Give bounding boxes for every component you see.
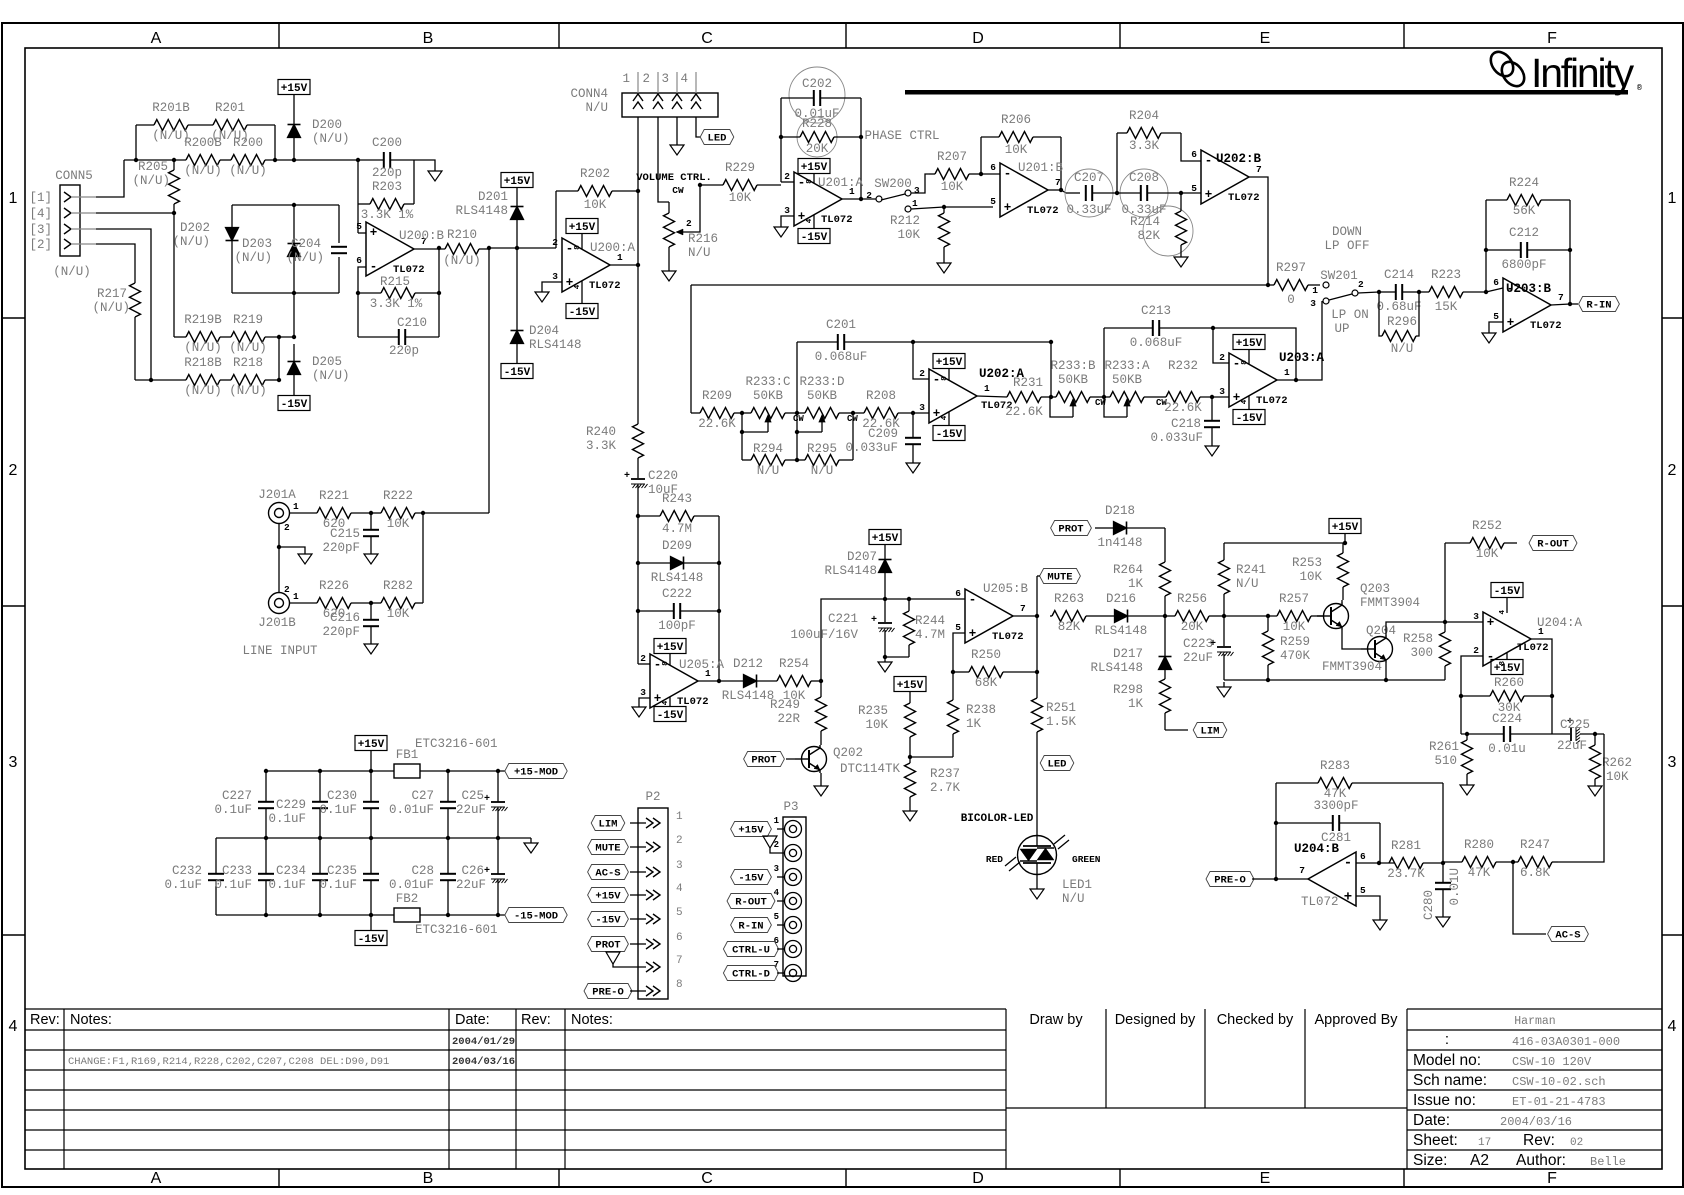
svg-text:+15V: +15V [1332, 522, 1359, 534]
svg-text:2: 2 [284, 584, 290, 595]
svg-text:0.1uF: 0.1uF [319, 878, 357, 892]
capacitor C216 220pF [322, 603, 379, 639]
svg-text:Notes:: Notes: [571, 1012, 613, 1028]
potentiometer R233:D 50KB [795, 375, 859, 434]
wire CONN5 pin3 riser [96, 229, 153, 382]
svg-text:C202: C202 [802, 77, 832, 91]
svg-text:R251: R251 [1046, 701, 1076, 715]
svg-text:8: 8 [662, 661, 670, 666]
svg-text:82K: 82K [1058, 620, 1081, 634]
svg-text:U201:A: U201:A [818, 176, 864, 190]
svg-text:4: 4 [774, 888, 780, 898]
capacitor C202 0.01uF ECO circle [781, 67, 861, 123]
svg-text:D212: D212 [733, 657, 763, 671]
svg-text:C215: C215 [330, 527, 360, 541]
connector CONN5 [29, 169, 96, 279]
svg-text:4: 4 [941, 415, 949, 420]
ground (C221) [878, 657, 892, 672]
svg-text:2: 2 [642, 72, 650, 86]
svg-text:3.3K: 3.3K [586, 439, 617, 453]
svg-text:+: + [370, 226, 378, 240]
svg-text:1: 1 [984, 383, 990, 394]
wire C201 to pin2 [913, 342, 929, 379]
svg-text:CW: CW [793, 414, 804, 424]
svg-text:8: 8 [676, 979, 683, 991]
svg-text:+15V: +15V [595, 891, 621, 903]
svg-text:CHANGE:F1,R169,R214,R228,C202,: CHANGE:F1,R169,R214,R228,C202,C207,C208 … [68, 1056, 389, 1068]
connector P3 pin 2 gnd [763, 836, 802, 862]
svg-text:+: + [871, 615, 877, 626]
connector P2 pin 4 +15V [588, 883, 683, 903]
svg-text:R233:B: R233:B [1050, 359, 1096, 373]
Infinity logo [1486, 48, 1642, 96]
svg-text:-15V: -15V [801, 232, 828, 244]
wire pin2 feedback [555, 191, 557, 248]
svg-text:2.7K: 2.7K [930, 781, 961, 795]
svg-text:-15V: -15V [1494, 586, 1521, 598]
capacitor C215 220pF [322, 513, 379, 555]
svg-text:3: 3 [676, 860, 683, 872]
op-amp U202:B [1191, 149, 1262, 204]
svg-text:R-IN: R-IN [1586, 300, 1611, 312]
resistor R214 82K ECO circle [1130, 193, 1193, 256]
svg-text:R252: R252 [1472, 519, 1502, 533]
svg-text:TL072: TL072 [821, 214, 853, 226]
svg-text:3: 3 [1668, 754, 1677, 771]
svg-text:3: 3 [1219, 386, 1225, 397]
svg-text:0.068uF: 0.068uF [815, 350, 868, 364]
power flag +15V (D200) [278, 80, 310, 125]
svg-text:F: F [1547, 30, 1557, 47]
wire pin2 [638, 663, 650, 665]
svg-text:N/U: N/U [585, 101, 608, 115]
svg-text:2: 2 [9, 462, 18, 479]
svg-text:3: 3 [914, 185, 920, 196]
svg-text:(N/U): (N/U) [229, 164, 267, 178]
svg-text:0.1uF: 0.1uF [164, 878, 202, 892]
svg-text:C: C [701, 30, 713, 47]
svg-text:10K: 10K [1283, 620, 1306, 634]
label BICOLOR-LED [961, 813, 1034, 825]
revision notes table [25, 1009, 1006, 1169]
svg-text:DOWN: DOWN [1332, 225, 1362, 239]
svg-text:ET-01-21-4783: ET-01-21-4783 [1512, 1095, 1606, 1109]
svg-text:CTRL-U: CTRL-U [732, 945, 770, 957]
svg-text:E: E [1260, 30, 1271, 47]
power flag +15V (FB1) [355, 736, 387, 772]
svg-text:R200: R200 [233, 136, 263, 150]
connector CONN4 [570, 72, 718, 117]
svg-text:Date:: Date: [1413, 1112, 1450, 1129]
wire R283/C280 riser [1442, 783, 1444, 863]
wire C213 to U203:A pin2 [1213, 328, 1229, 363]
wire to R204 [1116, 133, 1118, 193]
svg-text:C230: C230 [327, 789, 357, 803]
wire MUTE vertical [1036, 576, 1038, 698]
svg-text:8: 8 [941, 376, 949, 381]
svg-text:10K: 10K [387, 607, 410, 621]
resistor R241 N/U [1219, 543, 1267, 616]
ground (R237) [903, 806, 917, 821]
capacitor C232 0.1uF [164, 838, 224, 915]
wire J201A shield [277, 524, 305, 592]
capacitor C235 0.1uF [319, 838, 379, 915]
resistor R247 6.8K [1513, 838, 1558, 880]
svg-text:U201:B: U201:B [1018, 161, 1064, 175]
svg-text:(N/U): (N/U) [229, 384, 267, 398]
svg-text:0.1uF: 0.1uF [214, 803, 252, 817]
capacitor C223 22uF [1183, 616, 1234, 680]
wire CONN5 pin1 to R200B row [96, 160, 124, 197]
ground (C200) [428, 166, 442, 181]
wire AC-S drop [1513, 862, 1546, 934]
resistor R244 4.7M [883, 599, 945, 659]
svg-text:U205:A: U205:A [679, 658, 725, 672]
resistor R219B (N/U) [174, 313, 222, 355]
svg-text:TL072: TL072 [1301, 895, 1339, 909]
svg-text:23.7K: 23.7K [1387, 867, 1425, 881]
svg-text:5: 5 [774, 912, 779, 922]
svg-text:2: 2 [686, 218, 692, 229]
svg-text:Approved By: Approved By [1314, 1012, 1398, 1028]
svg-text:3: 3 [784, 205, 790, 216]
svg-text:PHASE CTRL: PHASE CTRL [864, 129, 939, 143]
resistor R237 2.7K [905, 757, 961, 806]
svg-text:R223: R223 [1431, 268, 1461, 282]
capacitor C224 0.01u [1461, 712, 1552, 756]
wire R282 up to row [422, 513, 424, 603]
wire C201 right to R231 node [1049, 342, 1053, 399]
potentiometer R216 N/U [664, 185, 719, 260]
svg-text:5: 5 [1493, 311, 1499, 322]
net flag PROT (Q202) [744, 752, 795, 767]
wire U201:A feedback loop [779, 98, 863, 201]
resistor R262 10K [1590, 732, 1633, 784]
wire +15 rail [264, 769, 505, 773]
svg-text:R241: R241 [1236, 563, 1266, 577]
svg-text:D: D [972, 30, 984, 47]
junction R280/R247 [1511, 860, 1515, 864]
ground (R216) [662, 258, 676, 281]
svg-text:1.5K: 1.5K [1046, 715, 1077, 729]
svg-text:4: 4 [1499, 610, 1507, 615]
ground (C216) [364, 639, 378, 654]
svg-text:E: E [1260, 1170, 1271, 1187]
resistor R282 10K [369, 579, 423, 621]
svg-text:+: + [1487, 616, 1495, 630]
svg-text:4.7M: 4.7M [915, 628, 945, 642]
svg-text:-15V: -15V [936, 429, 963, 441]
capacitor C214 0.68uF [1376, 268, 1421, 314]
svg-text:C26: C26 [461, 864, 484, 878]
wire U202:A out [977, 396, 1007, 397]
wire R201 to main row [273, 125, 277, 162]
resistor R264 1K [1113, 528, 1171, 616]
resistor R212 10K [890, 205, 950, 247]
svg-text:U203:B: U203:B [1506, 282, 1552, 296]
resistor R297 0 [1268, 261, 1320, 307]
svg-text:C224: C224 [1492, 712, 1522, 726]
connector P2 pin 6 PROT [588, 932, 683, 952]
svg-text:C233: C233 [222, 864, 252, 878]
svg-text:R264: R264 [1113, 563, 1143, 577]
svg-text:3: 3 [774, 864, 779, 874]
svg-text:Infinity: Infinity [1531, 50, 1635, 96]
svg-text:0.033uF: 0.033uF [1150, 431, 1203, 445]
svg-text:TL072: TL072 [1228, 192, 1260, 204]
svg-text:C218: C218 [1171, 417, 1201, 431]
svg-text:+: + [484, 866, 490, 877]
svg-text:4: 4 [680, 72, 688, 86]
svg-text:R-OUT: R-OUT [1537, 539, 1569, 551]
svg-text:FB2: FB2 [396, 892, 419, 906]
capacitor C234 0.1uF [268, 838, 328, 915]
wire R205 to R219B row [173, 213, 175, 337]
svg-text:A: A [151, 1170, 162, 1187]
diode D217 RLS4148 [1090, 616, 1171, 679]
wire bus main vertical [637, 191, 639, 265]
net flag LED (CONN4) [696, 117, 734, 145]
resistor R209 22.6K [691, 389, 742, 431]
svg-text:R261: R261 [1429, 740, 1459, 754]
connector P2 pin 2 MUTE [588, 835, 683, 855]
svg-text:ETC3216-601: ETC3216-601 [415, 737, 498, 751]
svg-text:2004/03/16: 2004/03/16 [1500, 1115, 1572, 1129]
diode D205 (N/U) [288, 344, 350, 395]
svg-text:C212: C212 [1509, 226, 1539, 240]
svg-text:C28: C28 [411, 864, 434, 878]
svg-text:10K: 10K [729, 191, 752, 205]
svg-text:68K: 68K [975, 676, 998, 690]
signature block [1006, 1009, 1407, 1108]
wire R238 R235 join [910, 756, 953, 758]
svg-text:R262: R262 [1602, 756, 1632, 770]
ground (R212) [937, 247, 951, 273]
resistor R228 20K ECO circle [781, 117, 861, 157]
svg-text:-: - [1004, 167, 1012, 181]
svg-text:U204:A: U204:A [1537, 616, 1583, 630]
svg-text:R256: R256 [1177, 592, 1207, 606]
svg-text:R210: R210 [447, 228, 477, 242]
ground (C215) [364, 549, 378, 564]
svg-text:PROT: PROT [595, 940, 620, 952]
wire output loop right [437, 246, 441, 337]
svg-text:P3: P3 [783, 800, 798, 814]
resistor R224 56K [1486, 176, 1570, 292]
capacitor C204 (N/U) [286, 237, 347, 265]
resistor R243 4.7M [638, 492, 719, 536]
capacitor C208 0.33uF ECO circle [1117, 169, 1201, 217]
power flag +15V (R235) [894, 677, 926, 704]
svg-text:SW201: SW201 [1320, 269, 1358, 283]
svg-text:B: B [423, 30, 434, 47]
svg-text:4: 4 [806, 218, 814, 223]
svg-text:10K: 10K [1005, 143, 1028, 157]
svg-text:CONN5: CONN5 [55, 169, 93, 183]
svg-text:1K: 1K [1128, 577, 1144, 591]
svg-text:220pF: 220pF [322, 625, 360, 639]
resistor R294 N/U [742, 432, 797, 478]
svg-text:300: 300 [1410, 646, 1433, 660]
svg-text:+: + [1507, 316, 1515, 330]
svg-text:C221: C221 [828, 612, 858, 626]
svg-text:(N/U): (N/U) [443, 254, 481, 268]
svg-text:6: 6 [1191, 149, 1197, 160]
svg-text:LIM: LIM [599, 819, 618, 831]
capacitor C221 100uF/16V [790, 599, 894, 657]
ground (mid rail) [524, 838, 538, 853]
ground (C218) [1205, 441, 1219, 456]
svg-text:R204: R204 [1129, 109, 1159, 123]
switch SW201 [1310, 269, 1364, 309]
svg-text:Notes:: Notes: [70, 1012, 112, 1028]
capacitor C201 0.068uF [797, 318, 1053, 460]
resistor R200B (N/U) [124, 136, 222, 178]
net flag MUTE [1037, 569, 1080, 584]
diode D207 RLS4148 [824, 550, 891, 601]
svg-text:D200: D200 [312, 118, 342, 132]
svg-text:5: 5 [356, 221, 362, 232]
label FMMT3904 (Q204) [1322, 660, 1382, 674]
svg-text:1: 1 [622, 72, 630, 86]
wire PRE-O to U204:B [1260, 877, 1308, 881]
svg-text:Sheet:: Sheet: [1413, 1132, 1458, 1149]
svg-text:U200:A: U200:A [590, 241, 636, 255]
svg-text:D216: D216 [1106, 592, 1136, 606]
connector P2 pin 1 LIM [591, 811, 683, 831]
svg-text:RLS4148: RLS4148 [455, 204, 508, 218]
svg-text:1K: 1K [966, 717, 982, 731]
svg-text:6: 6 [1360, 851, 1366, 862]
svg-text:50KB: 50KB [1058, 373, 1089, 387]
resistor R261 510 [1429, 734, 1473, 780]
op-amp U205:A [640, 639, 724, 723]
svg-text:®: ® [1637, 84, 1642, 93]
wire Q203 emitter to Q204 base [1342, 630, 1361, 649]
svg-text:DTC114TK: DTC114TK [840, 762, 901, 776]
svg-text:LED1: LED1 [1062, 878, 1092, 892]
connector P3 pin 3 -15V [731, 864, 802, 886]
power flag +15V (D201) [501, 173, 533, 207]
svg-text:R228: R228 [802, 117, 832, 131]
svg-text:220p: 220p [372, 166, 402, 180]
svg-text:+15V: +15V [1494, 663, 1521, 675]
resistor R215 3.3K 1% [358, 275, 439, 311]
connector P2 pin 7 gnd [606, 952, 683, 972]
svg-text:-: - [566, 242, 574, 256]
capacitor C281 3300pF [1276, 799, 1380, 863]
svg-text:R218B: R218B [184, 356, 222, 370]
svg-text:17: 17 [1478, 1137, 1491, 1149]
svg-text:7: 7 [1055, 177, 1061, 188]
capacitor C200 220p [372, 136, 415, 180]
svg-text:(N/U): (N/U) [132, 174, 170, 188]
svg-text:R217: R217 [97, 287, 127, 301]
svg-text:7: 7 [676, 955, 683, 967]
svg-text:+15V: +15V [897, 680, 924, 692]
svg-text:+15V: +15V [738, 825, 764, 837]
svg-text:RLS4148: RLS4148 [722, 689, 775, 703]
svg-text:C209: C209 [868, 427, 898, 441]
svg-text:LIM: LIM [1201, 726, 1220, 738]
svg-text:8: 8 [1499, 661, 1507, 666]
svg-text:100uF/16V: 100uF/16V [790, 628, 858, 642]
op-amp U201:B [990, 161, 1063, 217]
svg-text:A2: A2 [1470, 1152, 1489, 1169]
svg-text:+15V: +15V [872, 533, 899, 545]
wire bus to U205:A pin2 [636, 514, 640, 664]
svg-text:4: 4 [1241, 399, 1249, 404]
svg-text:5: 5 [990, 196, 996, 207]
svg-text:C232: C232 [172, 864, 202, 878]
ground (R262) [1588, 781, 1602, 796]
svg-text:2: 2 [866, 190, 872, 201]
resistor R202 10K [556, 167, 638, 212]
svg-text:R203: R203 [372, 180, 402, 194]
power flag -15V (U204:A) [1491, 583, 1523, 615]
diode D201 RLS4148 [455, 190, 523, 248]
svg-text:1: 1 [9, 190, 18, 207]
capacitor C218 0.033uF [1150, 397, 1220, 445]
svg-text:0.1uF: 0.1uF [268, 812, 306, 826]
wire CONN4 pin2 to volume pot [658, 117, 669, 202]
svg-text:R219: R219 [233, 313, 263, 327]
svg-text:0.01u: 0.01u [1488, 742, 1526, 756]
capacitor C210 220p [358, 316, 439, 358]
svg-text:10K: 10K [941, 180, 964, 194]
diode D200 (N/U) [288, 118, 350, 162]
wire U205:B out [1013, 614, 1039, 618]
labels DOWN LP OFF [1324, 225, 1369, 253]
resistor R218B (N/U) [135, 356, 222, 398]
wire pin6 row U201:B [979, 172, 1000, 176]
svg-text:U200:B: U200:B [399, 229, 445, 243]
diode D209 RLS4148 [638, 539, 719, 585]
ground (limiter rail) [1217, 682, 1231, 697]
svg-text:BICOLOR-LED: BICOLOR-LED [961, 813, 1034, 825]
capacitor C28 0.01uF [389, 838, 456, 915]
svg-text:R233:A: R233:A [1104, 359, 1150, 373]
capacitor C230 0.1uF [319, 771, 379, 838]
wire R217 to R218B row [134, 321, 136, 380]
diode D218 1n4148 [1097, 504, 1165, 550]
svg-text:2: 2 [1473, 645, 1479, 656]
svg-text:TL072: TL072 [992, 631, 1024, 643]
svg-text:MUTE: MUTE [1047, 572, 1072, 584]
wire -15 rail [216, 913, 505, 917]
svg-text:B: B [423, 1170, 434, 1187]
resistor R226 620 [290, 579, 371, 621]
svg-text:+15V: +15V [936, 357, 963, 369]
svg-text:D202: D202 [180, 221, 210, 235]
resistor R252 10K [1445, 519, 1517, 561]
svg-text:RLS4148: RLS4148 [824, 564, 877, 578]
resistor R204 3.3K [1117, 109, 1181, 153]
svg-text:N/U: N/U [811, 464, 834, 478]
wire riser to R201B row [134, 125, 138, 162]
svg-text:(N/U): (N/U) [184, 341, 222, 355]
svg-text:-15V: -15V [738, 873, 764, 885]
diode D203 (N/U) [234, 205, 300, 293]
svg-text:-15V: -15V [504, 367, 531, 379]
svg-text:-: - [1205, 154, 1213, 168]
svg-text:R218: R218 [233, 356, 263, 370]
svg-text:8: 8 [574, 245, 582, 250]
svg-text:-: - [654, 658, 662, 672]
svg-text:+: + [798, 210, 806, 224]
capacitor C280 0.01U [1422, 863, 1462, 920]
svg-text:4: 4 [1668, 1018, 1677, 1035]
